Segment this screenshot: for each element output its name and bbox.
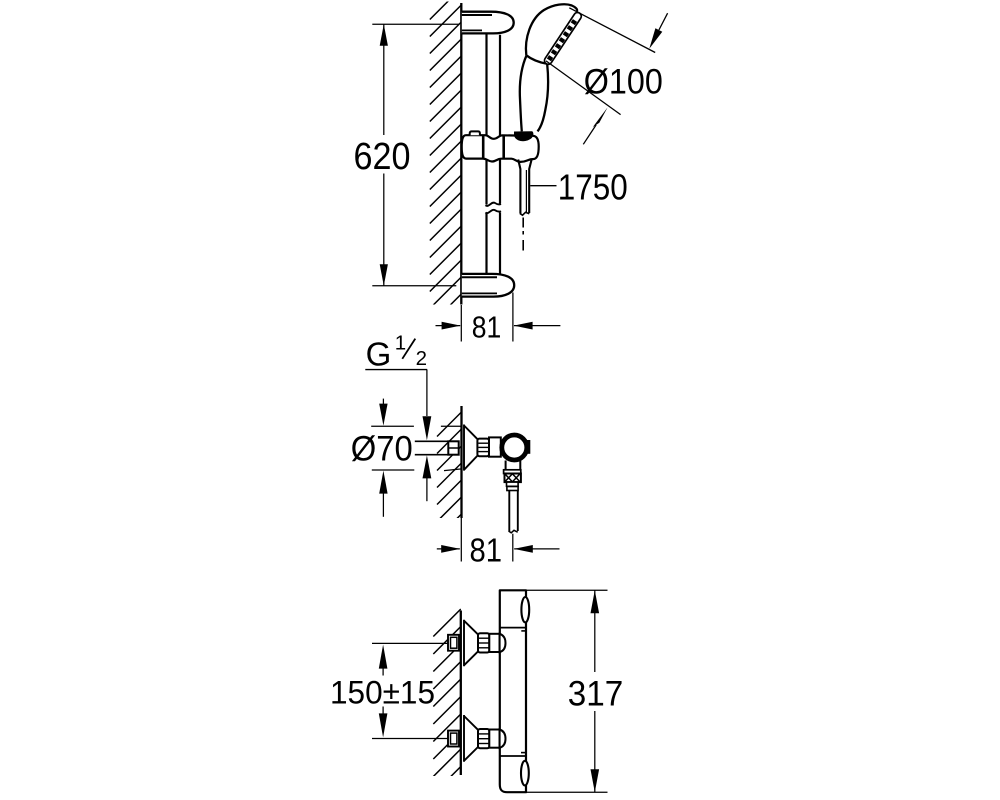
handle dark end in holder socket bbox=[514, 131, 533, 141]
swivel nut with cross knurl bbox=[505, 474, 521, 483]
dimension 81 (top) bbox=[460, 305, 462, 342]
top supply line bbox=[372, 642, 448, 644]
top escutcheon (bottom section) bbox=[464, 620, 478, 667]
svg-text:150±15: 150±15 bbox=[330, 673, 435, 710]
dimension 150 +/- 15 bbox=[379, 645, 388, 669]
dimension O70 bbox=[371, 425, 414, 427]
shower head spray face band bbox=[543, 11, 583, 66]
svg-text:1750: 1750 bbox=[558, 166, 628, 207]
hose nut neck bbox=[507, 482, 519, 486]
hand shower handle bbox=[520, 56, 527, 132]
wall hatching (bottom section) bbox=[433, 609, 461, 794]
wall hatching (top section) bbox=[430, 0, 462, 326]
top knurled nut (bottom section) bbox=[478, 633, 489, 652]
outlet collar bbox=[504, 470, 521, 474]
bottom knurled nut (bottom section) bbox=[478, 729, 489, 748]
top inlet nipple bbox=[448, 635, 459, 651]
seam tick bottom bbox=[521, 752, 525, 754]
body cap seam top bbox=[500, 627, 526, 629]
holder detent knob bbox=[470, 131, 480, 135]
svg-text:620: 620 bbox=[354, 136, 411, 178]
hose cut end (middle) bbox=[509, 530, 518, 533]
spray nozzles dashes bbox=[549, 18, 577, 60]
svg-text:81: 81 bbox=[470, 532, 503, 569]
G 1/2 lower arrow bbox=[423, 455, 432, 478]
shower rail tube (upper segment) bbox=[485, 34, 487, 204]
hose cut end bbox=[520, 212, 529, 215]
seam tick top bbox=[521, 630, 525, 632]
S-union ball bump bottom bbox=[500, 730, 506, 748]
svg-text:1: 1 bbox=[395, 331, 406, 354]
supply nipple square bbox=[448, 441, 458, 454]
dimension 1750 leader bbox=[530, 185, 556, 187]
slider holder body bbox=[462, 135, 539, 162]
bottom supply line bbox=[372, 738, 448, 740]
knurled nut (middle) bbox=[477, 439, 489, 457]
mixer body bbox=[500, 590, 526, 792]
wall hatching (middle section) bbox=[437, 412, 462, 539]
body end cap ellipse bottom bbox=[521, 761, 529, 786]
svg-text:Ø70: Ø70 bbox=[351, 428, 413, 468]
hand shower head outline bbox=[526, 4, 577, 64]
supply pipe lines behind wall bbox=[415, 440, 449, 442]
hose inner highlight line bbox=[525, 170, 527, 212]
rail top end cap bbox=[462, 12, 514, 34]
dimension 317 bbox=[510, 589, 608, 591]
svg-text:G: G bbox=[366, 335, 392, 372]
hose continuation dashed centerline bbox=[522, 218, 524, 228]
holder clamp lines bbox=[482, 135, 485, 158]
shower rail tube (lower segment) bbox=[485, 214, 487, 275]
wall line (top section) bbox=[460, 3, 462, 305]
G 1/2 leader underline and arrow bbox=[365, 369, 427, 371]
S-union ball bump top bbox=[500, 634, 506, 652]
dimension O100 (diagonal) bbox=[569, 8, 655, 53]
body cap seam bottom bbox=[500, 755, 526, 757]
rail break wavy cut upper bbox=[486, 203, 502, 206]
union body (middle) bbox=[489, 437, 501, 456]
wall line (middle section) bbox=[460, 406, 462, 518]
escutcheon (middle) bbox=[464, 425, 478, 471]
hose (middle section) bbox=[508, 491, 510, 532]
elbow outlet tube bbox=[505, 461, 507, 471]
svg-text:2: 2 bbox=[416, 347, 427, 370]
bottom inlet nipple bbox=[448, 731, 459, 747]
ball elbow bbox=[526, 440, 531, 454]
rail bottom end cap bbox=[462, 274, 514, 297]
wall line (bottom section) bbox=[460, 611, 462, 776]
body end cap ellipse top bbox=[521, 597, 529, 622]
bottom union connector (bottom section) bbox=[489, 730, 499, 748]
top union connector (bottom section) bbox=[489, 634, 499, 652]
shower hose below holder bbox=[518, 160, 531, 214]
dimension 81 (middle) bbox=[460, 518, 462, 562]
svg-text:317: 317 bbox=[568, 674, 624, 713]
dimension 620 bbox=[372, 23, 459, 25]
rail break wavy cut lower bbox=[486, 210, 502, 213]
svg-text:Ø100: Ø100 bbox=[584, 61, 663, 101]
bottom escutcheon (bottom section) bbox=[464, 715, 478, 762]
svg-text:81: 81 bbox=[472, 309, 502, 344]
